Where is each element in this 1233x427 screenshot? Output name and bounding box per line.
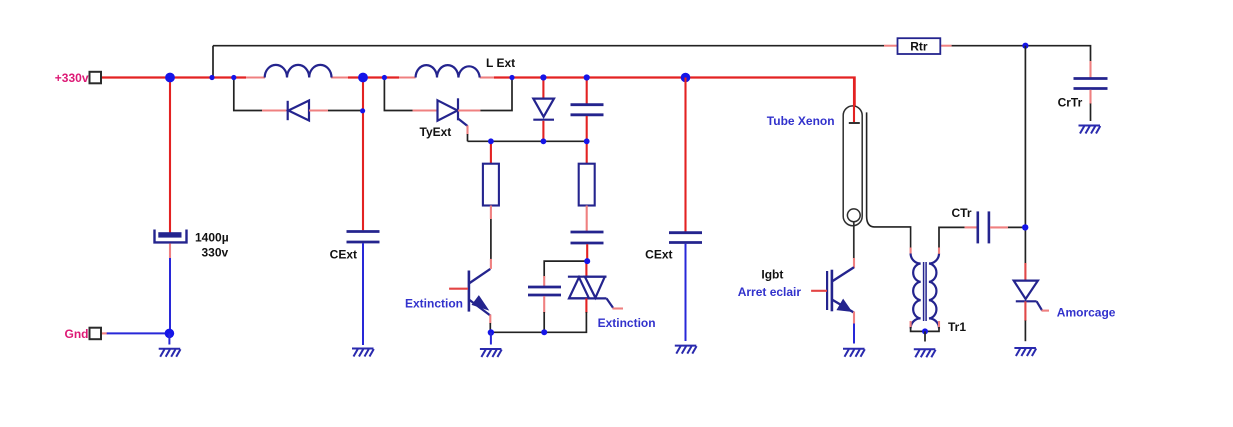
node junction bus 233 [231, 75, 236, 80]
svg-text:Extinction: Extinction [598, 316, 656, 330]
node junction rail R2 [584, 138, 590, 144]
resistor Rtr [898, 38, 941, 54]
wire: thyristor to ground (black) [1024, 321, 1026, 342]
ground under CrTr [1079, 126, 1101, 134]
svg-text:Arret eclair: Arret eclair [738, 285, 802, 299]
node junction bus 170 [165, 73, 175, 83]
node junction Tr1 ground [922, 328, 928, 334]
node junction bus CExt2 [681, 73, 691, 83]
node junction top rail [1022, 43, 1028, 49]
wire: TyExt gate to gate rail [467, 134, 469, 141]
svg-text:Rtr: Rtr [910, 40, 928, 54]
tube anode electrode [849, 78, 860, 124]
wire: Amorcage gate stub [1042, 310, 1050, 312]
wire: CExt2 drop red [684, 78, 686, 233]
wire: branch down-left of D1 (black) [234, 78, 262, 111]
node junction bus 384 [382, 75, 387, 80]
node junction bus 212 [209, 75, 214, 80]
wire: C3 bottom lead [543, 296, 545, 313]
capacitor CTr [978, 211, 989, 243]
tube Xenon envelope [843, 106, 862, 226]
svg-text:L Ext: L Ext [486, 56, 515, 70]
wire: Rtr left pin stub [884, 45, 898, 47]
node junction Gnd [165, 329, 175, 339]
wire: +330v red bus [101, 78, 855, 116]
capacitor C2 under R2 [571, 232, 604, 243]
wire: Rtr right pin stub [940, 45, 951, 47]
wire: red drop to C1 snubber [586, 78, 588, 105]
wire: igbt gate stub [811, 290, 827, 292]
transistor U1 Igbt [827, 267, 854, 312]
wire: thyristor anode red [1024, 263, 1026, 282]
wire: Tr1 bottom leads [911, 321, 939, 331]
wire: Gnd horizontal (blue) [107, 332, 170, 334]
wire: triac top link left (black) [544, 261, 587, 277]
wire: CrTr top salmon [1089, 61, 1091, 78]
ground under Q1 [480, 349, 502, 357]
wire: Q1 ground stub [490, 332, 492, 344]
transformer Tr1 left winding [911, 254, 921, 329]
wire: electrolytic drop red [169, 78, 171, 234]
svg-text:CExt: CExt [645, 247, 672, 261]
inductor L1 [265, 65, 332, 78]
capacitor CrTr [1074, 79, 1108, 89]
wire: CExt1 to ground (blue) [362, 243, 364, 345]
node junction CTr [1022, 224, 1028, 230]
ground under Amorcage [1014, 348, 1036, 356]
wire: C3 to ground rail (black) [543, 312, 545, 332]
triac T1 Extinction [568, 277, 613, 308]
wire: C2 to triac node [586, 244, 588, 261]
transistor Q1 Extinction [469, 269, 490, 316]
wire: triac anode red [585, 261, 587, 277]
wire: branch down-left of TyExt (black) [384, 78, 412, 111]
transformer Tr1 core [924, 262, 927, 321]
wire: thyristor cathode red [1024, 301, 1026, 321]
svg-text:Extinction: Extinction [405, 296, 463, 310]
node junction bus 363 [358, 73, 368, 83]
wire: stub rail to R1 [490, 141, 492, 164]
wire: Tr1 right lead up (black) [939, 227, 965, 254]
wire: gnd stub [168, 333, 170, 344]
capacitor CExt left [347, 232, 380, 243]
resistor R1 [483, 164, 499, 206]
wire: black from D1 to node [328, 110, 363, 112]
wire: Q1 emitter salmon [489, 315, 491, 324]
wire: top rail (black) from Rtr to CrTr corner [952, 46, 1091, 62]
svg-text:1400µ: 1400µ [195, 230, 229, 244]
wire: trigger to Tr1 left lead [910, 248, 912, 255]
wire: red drop to D2 [542, 78, 544, 100]
wire: R2 bottom stub [586, 206, 588, 232]
node junction rail R1 [488, 138, 494, 144]
wire: Tr1 right top salmon [938, 248, 940, 254]
wire: electrolytic to gnd node (blue) [169, 258, 171, 333]
node junction on CExt1 drop [360, 108, 365, 113]
diode D1 (points left) [288, 101, 309, 121]
wire: triac gate stub [613, 307, 624, 309]
wire: R1 to Q1 collector (black) [490, 219, 492, 259]
wire: CrTr to ground (black) [1090, 104, 1092, 122]
node junction triac top [584, 258, 590, 264]
svg-text:CrTr: CrTr [1058, 95, 1083, 109]
wire: TyExt anode stub [413, 109, 439, 111]
svg-text:TyExt: TyExt [420, 125, 452, 139]
wire: Tr1 ground stub [924, 331, 926, 341]
node junction bus 512 [509, 75, 514, 80]
wire: red drop bus to CExt1 [362, 78, 364, 231]
thyristor TyExt [438, 98, 468, 126]
node junction bus D2 [540, 74, 546, 80]
wire: triac to ground rail (black) [544, 312, 586, 332]
ground under Tr1 [914, 349, 936, 357]
thyristor Th2 Amorcage [1014, 281, 1042, 311]
wire: Q1 collector salmon stub [490, 259, 492, 269]
wire: D2 cathode to rail [542, 121, 544, 142]
wire: CTr right stub [990, 226, 1008, 228]
capacitor C snubber at bus [571, 105, 604, 115]
wire: D1 anode stub [262, 109, 288, 111]
wire: stub rail to R2 [586, 141, 588, 164]
node junction Q1 ground [488, 329, 494, 335]
wire: salmon stub right of L Ext [480, 76, 494, 78]
wire: R1 bottom salmon stub [490, 206, 492, 220]
terminal Gnd square [90, 328, 102, 340]
wire: Q1 base stub [449, 288, 468, 290]
wire: black from TyExt up to bus [480, 78, 512, 111]
ground under Igbt [843, 349, 865, 357]
wire: igbt emitter to ground (blue) [853, 324, 855, 344]
wire: CTr to Amorcage column (black) [1008, 226, 1025, 228]
capacitor C4 1400u electrolytic [155, 230, 187, 243]
wire: top rail (black) from x213 to Rtr [213, 45, 884, 47]
tube cathode electrode circle [847, 209, 860, 259]
capacitor CExt right [669, 233, 702, 243]
wire: ground rail under Q1 (black) [491, 331, 545, 333]
terminal +330v square [90, 72, 102, 84]
wire: salmon into C3 [543, 276, 545, 286]
svg-text:330v: 330v [202, 246, 229, 260]
wire: black link from +330 bus up to top rail [212, 46, 214, 78]
wire: Q1 emitter to ground (black) [489, 323, 491, 332]
svg-text:Gnd: Gnd [65, 327, 89, 341]
svg-text:CExt: CExt [330, 248, 357, 262]
ground under CExt left [352, 349, 374, 357]
wire: CrTr bottom salmon [1089, 90, 1091, 104]
wire: CExt2 to ground (blue) [685, 244, 687, 341]
wire: C snubber to rail [586, 116, 588, 141]
wire: igbt emitter salmon [853, 312, 855, 325]
svg-text:CTr: CTr [952, 206, 972, 220]
inductor L Ext [416, 65, 480, 77]
resistor R2 [579, 164, 595, 206]
svg-text:+330v: +330v [55, 71, 89, 85]
transformer Tr1 right winding [929, 254, 939, 329]
wire: TyExt gate stub (salmon) [466, 126, 468, 135]
wire: gate rail y141 (black) [468, 140, 587, 142]
wire: Gnd terminal red stub [102, 332, 108, 334]
wire: electrolytic bottom salmon [169, 244, 171, 259]
node junction rail D2 [541, 138, 547, 144]
wire: salmon stub right of L1 [331, 76, 348, 78]
wire: salmon lead to tube anode [854, 113, 856, 122]
svg-text:Igbt: Igbt [761, 267, 783, 281]
wire: D1 cathode stub [309, 109, 328, 111]
wire: triac cathode down [585, 298, 587, 313]
wire: Amorcage column (black) [1024, 46, 1026, 264]
wire: tube trigger electrode [867, 112, 911, 248]
node junction bus C1 [584, 74, 590, 80]
wire: salmon stub left of L1 [246, 76, 265, 78]
wire: TyExt cathode stub [458, 109, 480, 111]
node junction C3 ground [541, 329, 547, 335]
diode D2 (points down) [533, 99, 554, 120]
svg-text:Tube Xenon: Tube Xenon [767, 114, 835, 128]
wire: salmon stub left of L Ext [399, 76, 416, 78]
ground under C4 [159, 349, 181, 357]
svg-text:Tr1: Tr1 [948, 320, 966, 334]
svg-text:Amorcage: Amorcage [1057, 305, 1116, 319]
wire: igbt collector salmon [853, 258, 855, 268]
ground under CExt right [675, 346, 697, 354]
wire: CTr left stub [965, 226, 977, 228]
capacitor C3 (left of triac) [528, 287, 561, 295]
